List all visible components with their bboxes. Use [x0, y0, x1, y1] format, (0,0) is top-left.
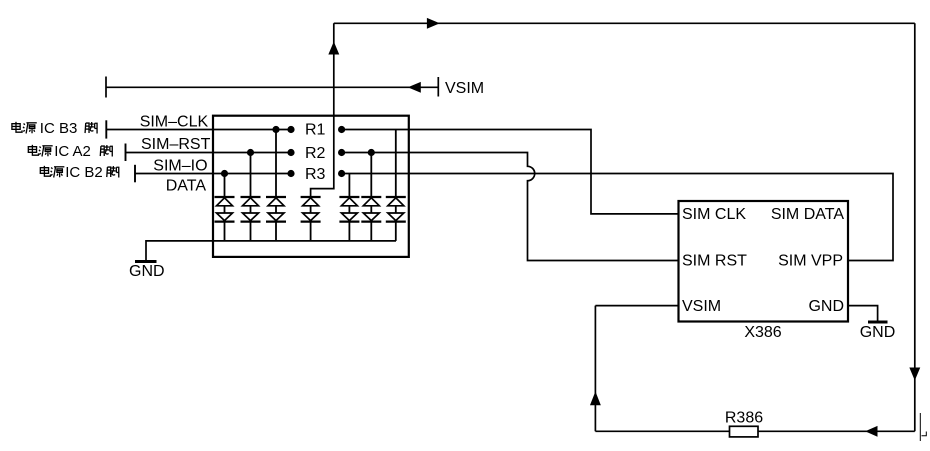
wire SIM-CLK left — [106, 129, 291, 131]
svg-text:SIM VPP: SIM VPP — [778, 253, 843, 270]
svg-text:VSIM: VSIM — [445, 80, 484, 97]
svg-text:IC A2: IC A2 — [54, 143, 91, 160]
svg-text:SIM–IO: SIM–IO — [153, 157, 207, 174]
arrow left on VSIM label line — [409, 83, 420, 92]
arrow down on right rail — [910, 368, 919, 379]
tick pin B2 — [134, 165, 136, 183]
svg-text:IC B3: IC B3 — [40, 120, 78, 137]
svg-text:IC B2: IC B2 — [65, 164, 103, 181]
wire SIM-IO left — [135, 173, 291, 175]
arrow up on VSIM loop — [591, 393, 600, 405]
svg-text:GND: GND — [860, 324, 896, 341]
wire SIM-RST left — [126, 152, 292, 154]
enter mark — [920, 413, 926, 441]
arrow right on top rail — [427, 19, 438, 28]
svg-text:R2: R2 — [305, 145, 326, 162]
svg-text:SIM RST: SIM RST — [682, 253, 747, 270]
wire right rail — [914, 23, 916, 431]
tick VSIM line left — [105, 77, 107, 98]
label pin B3 (Chinese) — [12, 120, 97, 137]
wire ground bus — [146, 241, 396, 260]
wire top rail — [334, 22, 915, 24]
tick VSIM line right — [437, 77, 439, 97]
svg-text:DATA: DATA — [166, 178, 207, 195]
wire VSIM riser — [311, 23, 334, 197]
diode D6 column — [361, 153, 381, 241]
tick pin A2 — [125, 144, 127, 162]
wire VSIM label line — [106, 86, 438, 88]
diode array box — [213, 116, 409, 257]
wire R3 to SIM VPP — [342, 174, 893, 261]
diode D7 column — [386, 130, 406, 241]
svg-text:R386: R386 — [725, 410, 763, 427]
wire VSIM loop left vertical — [594, 306, 596, 432]
label pin A2 (Chinese) — [28, 143, 112, 160]
svg-text:R3: R3 — [305, 166, 326, 183]
svg-text:VSIM: VSIM — [682, 298, 721, 315]
arrow up on VSIM riser — [329, 43, 338, 54]
tick pin B3 — [105, 120, 107, 138]
diode D3 column — [266, 130, 286, 241]
svg-text:SIM–CLK: SIM–CLK — [140, 114, 209, 131]
svg-text:X386: X386 — [744, 324, 781, 341]
node dots row R2 — [247, 149, 254, 156]
ground right — [868, 321, 888, 324]
label pin B2 (Chinese) — [40, 164, 118, 181]
svg-text:SIM DATA: SIM DATA — [771, 206, 845, 223]
diode D2 column — [241, 153, 261, 241]
svg-text:SIM–RST: SIM–RST — [141, 136, 211, 153]
svg-text:GND: GND — [808, 298, 844, 315]
svg-text:SIM CLK: SIM CLK — [682, 206, 746, 223]
wire R2 to SIM RST with hop — [342, 153, 679, 261]
diode D4 column — [301, 197, 321, 241]
wire bottom rail — [595, 430, 914, 432]
ground left — [135, 260, 157, 263]
svg-text:R1: R1 — [305, 122, 326, 139]
node dots row R1 — [272, 126, 279, 133]
svg-text:GND: GND — [129, 263, 165, 280]
arrow left on bottom rail — [866, 427, 877, 436]
X386 IC box — [679, 201, 849, 322]
wire R1 to SIM CLK — [342, 130, 679, 214]
wire GND pin right — [848, 306, 878, 321]
wire VSIM pin — [595, 305, 678, 307]
node dots row R3 — [221, 170, 228, 177]
resistor R386 — [730, 426, 759, 437]
diode D5 column — [339, 174, 359, 241]
diode D1 column — [215, 174, 235, 241]
